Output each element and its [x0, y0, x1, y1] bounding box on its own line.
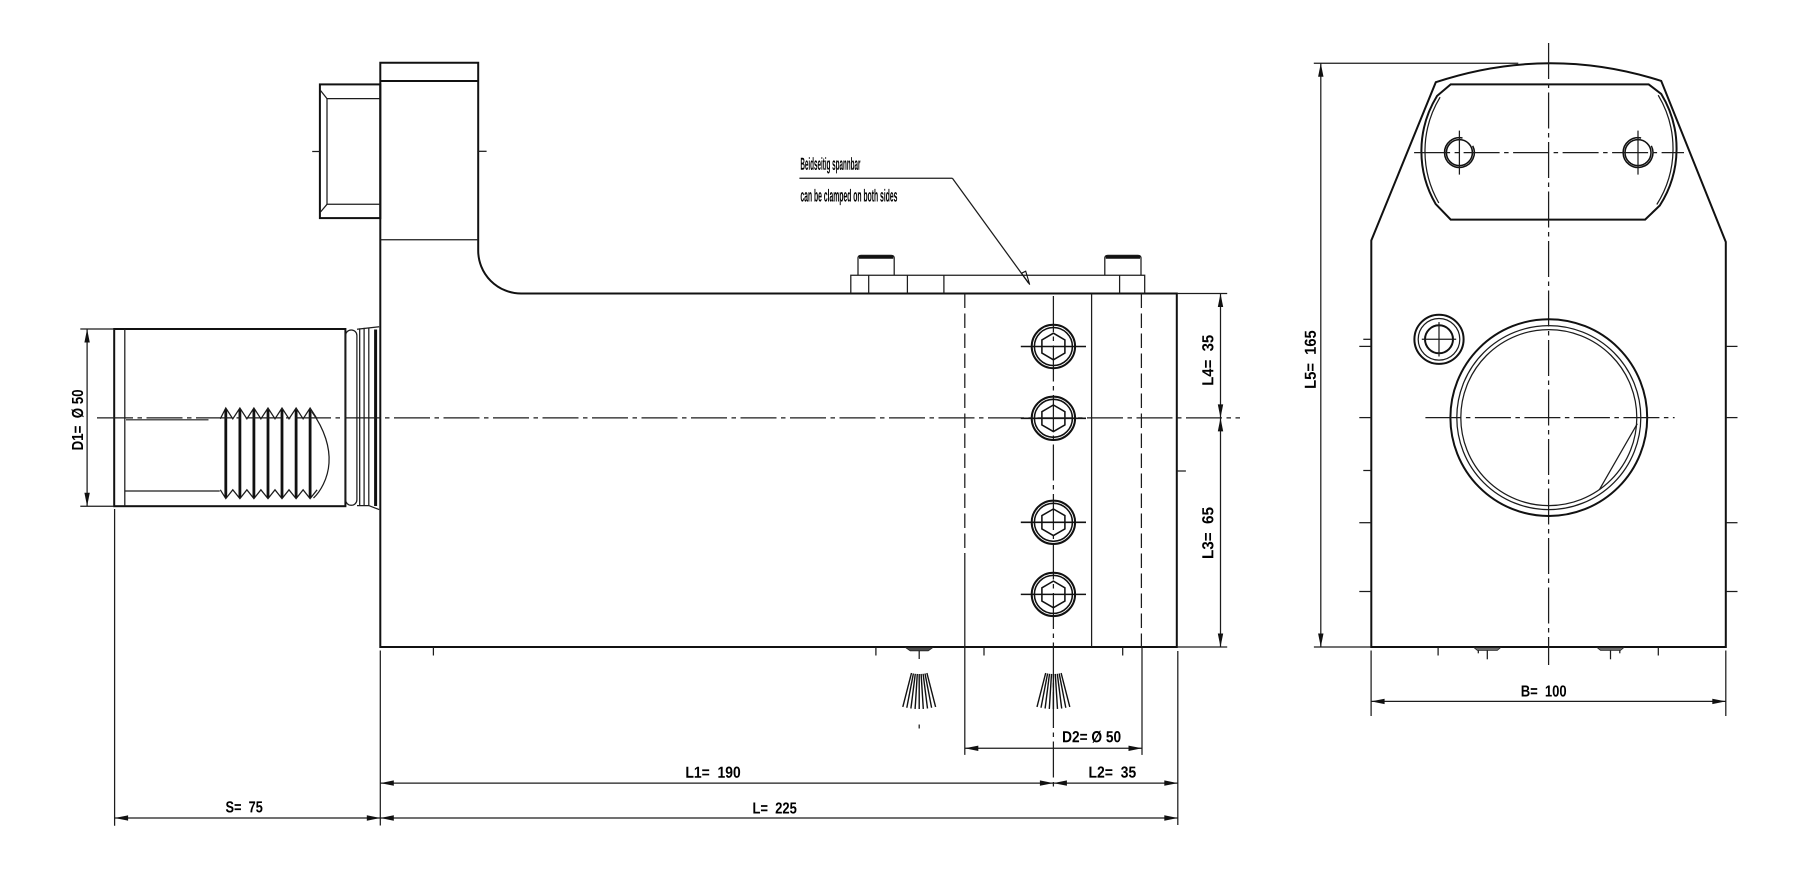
B dimension line — [1371, 700, 1726, 702]
D1 dimension line — [86, 329, 88, 506]
column base line — [380, 239, 478, 241]
B extension left — [1370, 651, 1372, 717]
clamp hole right — [1623, 131, 1653, 175]
clamp screw at y=522.3 — [1021, 501, 1086, 544]
flange line 1 — [359, 328, 361, 505]
leader text en — [801, 189, 897, 205]
L5 label — [1305, 331, 1316, 388]
hidden bore wall left (dashed) — [964, 294, 966, 554]
thread runout arc — [312, 412, 329, 498]
L5 extension bottom — [1314, 646, 1371, 648]
plate divider 1 — [868, 275, 870, 293]
D1 label — [71, 390, 83, 450]
front right edge tick y=591.5 — [1726, 591, 1738, 593]
plate screw head left — [858, 255, 894, 275]
front left edge tick y=470.5 — [1363, 470, 1371, 472]
flange line 2 — [363, 328, 365, 506]
front bottom tick left — [1437, 648, 1439, 656]
front right edge tick y=522.7 — [1726, 522, 1738, 524]
L1 label — [686, 767, 740, 778]
coolant fan left — [903, 673, 936, 709]
shank clamping flat — [126, 419, 209, 421]
column cap line — [380, 80, 478, 82]
screw axis centerline — [1052, 296, 1054, 790]
plate divider 3 — [943, 275, 945, 293]
thread crest profile (top) — [220, 408, 317, 419]
L4/L3 extension bottom — [1177, 646, 1227, 648]
D2 extension right — [1141, 647, 1143, 755]
clamp front inner arc left — [1425, 97, 1440, 203]
shank end chamfer line — [124, 329, 126, 506]
front notch right marks — [1610, 651, 1612, 660]
front left edge tick y=417.6 — [1359, 417, 1371, 419]
D2 label — [1063, 731, 1121, 743]
boss chamfer top — [321, 91, 328, 99]
body left extension — [379, 651, 381, 826]
L4 label — [1202, 335, 1213, 385]
shank outline (D1 shaft) — [114, 329, 345, 506]
front notch left marks — [1486, 651, 1488, 660]
boss inner — [327, 99, 380, 205]
bottom tick x=875.9 — [875, 648, 877, 656]
column tick — [478, 150, 486, 152]
flange bottom edge — [357, 506, 379, 510]
L1 dimension line — [380, 782, 1053, 784]
bottom tick x=433.4 — [432, 648, 434, 656]
collar groove ring — [346, 330, 357, 505]
bore outer circle — [1450, 319, 1647, 516]
leader text de — [801, 157, 860, 173]
side screw front — [1414, 315, 1463, 364]
bore horizontal centerline — [1425, 417, 1674, 419]
notch axis dot — [918, 725, 920, 729]
B label — [1522, 685, 1566, 696]
clamp section line — [1091, 294, 1093, 648]
D2 extension left — [964, 553, 966, 755]
L4/L3 extension top — [1177, 293, 1227, 295]
thread root profile (bottom) — [220, 490, 317, 499]
right edge tick — [1177, 470, 1186, 472]
clamp screw at y=346.5 — [1021, 325, 1086, 368]
boss outer — [320, 84, 380, 218]
front left edge tick y=591.5 — [1359, 591, 1371, 593]
L2 label — [1089, 766, 1135, 777]
clamp screw at y=594.4 — [1021, 573, 1086, 616]
clamp plate — [851, 275, 1145, 293]
front left edge tick y=339.3 — [1363, 338, 1371, 340]
L2 dimension line — [1053, 782, 1177, 784]
S label — [226, 801, 263, 812]
clamp screw at y=418.3 — [1021, 397, 1086, 440]
front left edge tick y=522.7 — [1359, 522, 1371, 524]
D1 extension top — [80, 328, 114, 330]
flange top edge — [357, 327, 379, 330]
front vertical centerline — [1548, 43, 1550, 665]
front notch left — [1474, 648, 1501, 651]
right edge extension — [1177, 651, 1179, 825]
plate divider 2 — [906, 275, 908, 293]
L dimension line — [380, 817, 1178, 819]
bottom tick x=984.0 — [983, 648, 985, 656]
bore inner circle — [1461, 330, 1637, 506]
D1 extension bottom — [80, 505, 114, 507]
boss chamfer bottom — [321, 204, 328, 212]
boss tick — [312, 151, 320, 153]
leader note underline — [799, 177, 952, 179]
shank lower flat line — [125, 490, 220, 492]
front left edge tick y=346.4 — [1359, 345, 1371, 347]
L3 label — [1202, 507, 1213, 558]
clamp holes centerline — [1414, 152, 1684, 154]
leader line — [952, 178, 1028, 283]
front notch right — [1597, 648, 1624, 651]
thread flanks — [226, 410, 310, 498]
flange line 3 — [368, 328, 370, 506]
front bottom tick right — [1657, 648, 1659, 656]
bore mid circle — [1457, 326, 1641, 510]
bore chord (clamp flat) — [1599, 424, 1637, 490]
L5 dimension line — [1320, 63, 1322, 647]
clamp front outer — [1421, 84, 1676, 219]
B extension right — [1725, 651, 1727, 717]
body outline — [380, 63, 1177, 647]
front outline — [1371, 63, 1726, 647]
S dimension line — [115, 817, 381, 819]
clamp front inner arc right — [1657, 95, 1673, 204]
L label — [753, 802, 796, 813]
L5 extension top — [1314, 62, 1519, 64]
L4 dimension line — [1220, 294, 1222, 418]
bottom tick x=1122.7 — [1122, 648, 1124, 656]
plate screw head right — [1105, 255, 1141, 275]
main centerline — [97, 417, 1240, 419]
plate divider 4 — [1119, 275, 1121, 293]
coolant notch left — [906, 648, 933, 651]
coolant fan right — [1037, 673, 1070, 709]
D2 dimension line — [965, 747, 1142, 749]
S extension left — [114, 509, 116, 826]
notch axis tick — [918, 651, 920, 659]
hidden bore wall right (dashed) — [1140, 294, 1142, 648]
clamp hole left — [1445, 131, 1475, 175]
front right edge tick y=346.4 — [1726, 345, 1738, 347]
flange thick ring — [374, 330, 377, 507]
L3 dimension line — [1220, 418, 1222, 647]
front right edge tick y=417.6 — [1726, 417, 1738, 419]
